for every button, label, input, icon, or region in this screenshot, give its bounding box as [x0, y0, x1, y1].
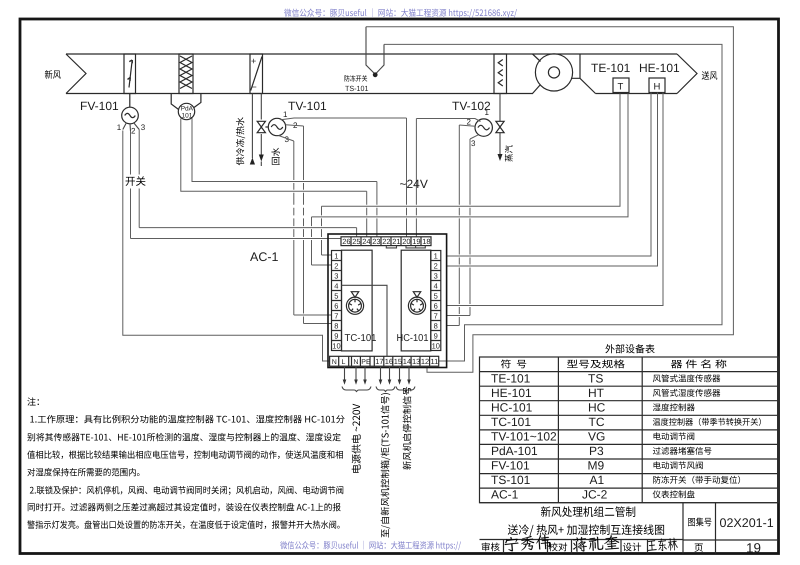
svg-text:5: 5	[334, 292, 338, 301]
svg-text:TS-101: TS-101	[491, 473, 531, 487]
svg-text:24: 24	[362, 237, 370, 246]
svg-text:A1: A1	[590, 473, 605, 487]
svg-text:12: 12	[421, 357, 429, 366]
svg-text:FV-101: FV-101	[491, 459, 530, 473]
svg-text:14: 14	[403, 357, 411, 366]
svg-text:21: 21	[392, 237, 400, 246]
svg-text:PdA: PdA	[181, 106, 194, 113]
svg-text:HC-101: HC-101	[397, 333, 429, 344]
svg-text:HT: HT	[588, 386, 605, 400]
svg-text:TS-101: TS-101	[345, 84, 369, 93]
svg-text:9: 9	[334, 332, 338, 341]
svg-text:6: 6	[434, 302, 438, 311]
svg-text:HE-101: HE-101	[639, 61, 680, 75]
svg-text:+: +	[251, 56, 256, 66]
svg-text:7: 7	[434, 312, 438, 321]
svg-text:1: 1	[283, 110, 288, 119]
svg-text:PE: PE	[361, 359, 371, 366]
svg-text:~24V: ~24V	[400, 177, 428, 191]
svg-text:N: N	[353, 359, 358, 366]
svg-text:−: −	[252, 82, 257, 92]
svg-text:HC-101: HC-101	[491, 401, 533, 415]
svg-text:P3: P3	[589, 444, 604, 458]
svg-text:VG: VG	[588, 430, 605, 444]
svg-text:AC-1: AC-1	[250, 250, 279, 264]
svg-text:6: 6	[334, 302, 338, 311]
svg-text:TS: TS	[588, 372, 603, 386]
svg-text:7: 7	[334, 312, 338, 321]
svg-text:3: 3	[471, 139, 476, 148]
svg-text:TV-101~102: TV-101~102	[491, 430, 557, 444]
svg-text:5: 5	[434, 292, 438, 301]
svg-text:TV-101: TV-101	[288, 99, 327, 113]
svg-text:1: 1	[485, 108, 490, 117]
svg-text:FV-101: FV-101	[80, 99, 119, 113]
svg-text:20: 20	[402, 237, 410, 246]
svg-text:PdA-101: PdA-101	[491, 444, 538, 458]
svg-text:25: 25	[352, 237, 360, 246]
svg-text:3: 3	[434, 272, 438, 281]
svg-text:11: 11	[431, 357, 439, 366]
svg-text:JC-2: JC-2	[582, 488, 608, 502]
svg-text:HC: HC	[588, 401, 606, 415]
svg-text:101: 101	[182, 113, 193, 120]
svg-text:N: N	[332, 359, 337, 366]
svg-text:TE-101: TE-101	[491, 372, 531, 386]
svg-text:4: 4	[334, 282, 338, 291]
svg-text:TC-101: TC-101	[345, 333, 377, 344]
svg-text:3: 3	[334, 272, 338, 281]
svg-text:18: 18	[422, 237, 430, 246]
svg-text:2: 2	[131, 127, 136, 136]
svg-text:23: 23	[372, 237, 380, 246]
svg-text:02X201-1: 02X201-1	[720, 516, 774, 530]
svg-text:T: T	[618, 82, 624, 93]
svg-text:9: 9	[434, 332, 438, 341]
svg-text:4: 4	[434, 282, 438, 291]
svg-text:1: 1	[434, 252, 438, 261]
svg-text:2: 2	[434, 262, 438, 271]
svg-text:1: 1	[334, 252, 338, 261]
svg-text:H: H	[654, 82, 661, 93]
svg-text:TC-101: TC-101	[491, 415, 531, 429]
svg-text:L: L	[342, 359, 346, 366]
svg-text:3: 3	[141, 123, 146, 132]
svg-text:1: 1	[117, 123, 122, 132]
svg-text:TE-101: TE-101	[591, 61, 631, 75]
svg-text:19: 19	[412, 237, 420, 246]
svg-text:HE-101: HE-101	[491, 386, 532, 400]
svg-text:15: 15	[394, 357, 402, 366]
svg-text:10: 10	[432, 342, 440, 351]
svg-text:22: 22	[382, 237, 390, 246]
svg-text:8: 8	[334, 322, 338, 331]
svg-text:2: 2	[334, 262, 338, 271]
svg-text:8: 8	[434, 322, 438, 331]
svg-text:19: 19	[746, 541, 761, 556]
svg-text:26: 26	[342, 237, 350, 246]
svg-text:TC: TC	[589, 415, 605, 429]
svg-text:AC-1: AC-1	[491, 488, 519, 502]
svg-text:M9: M9	[588, 459, 605, 473]
svg-text:17: 17	[375, 357, 383, 366]
svg-text:16: 16	[385, 357, 393, 366]
svg-text:13: 13	[412, 357, 420, 366]
svg-text:10: 10	[332, 342, 340, 351]
